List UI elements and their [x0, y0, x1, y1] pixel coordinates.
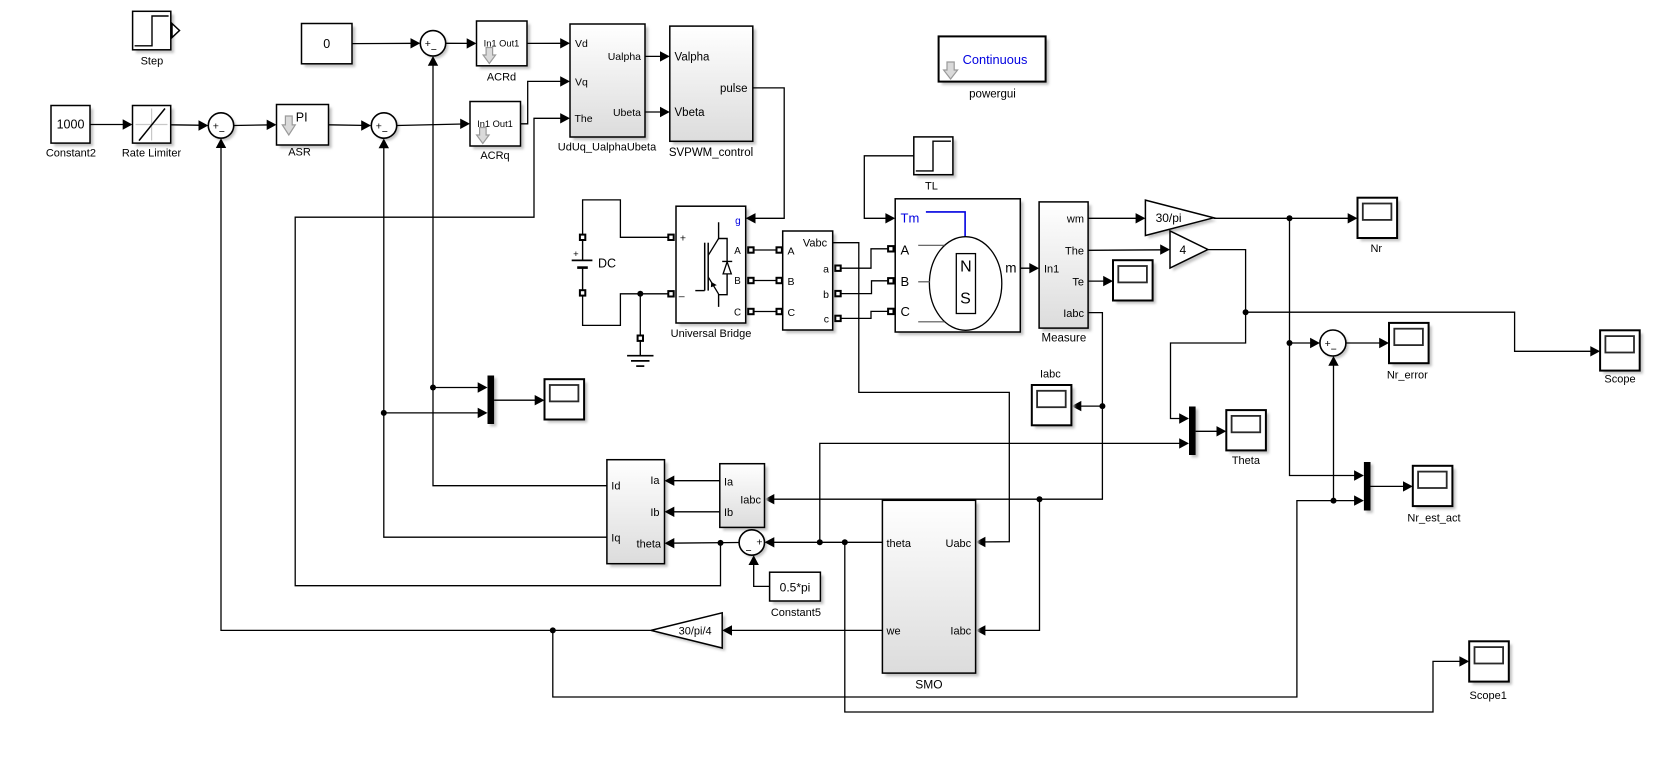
subsystem SMO sliding mode observer: [886, 504, 979, 677]
svg-text:Vd: Vd: [575, 38, 588, 50]
svg-text:wm: wm: [1066, 214, 1084, 226]
node Nr_est to sum junction: [1331, 498, 1337, 504]
sum junction theta correction: [742, 532, 767, 557]
wire bridge A to Vabc A: [748, 247, 753, 252]
svg-text:UdUq_UalphaUbeta: UdUq_UalphaUbeta: [558, 142, 657, 154]
scope Iabc: [1035, 388, 1075, 428]
wire Measure Iabc down and left to Iabc transform: [766, 313, 1102, 500]
ground symbol: [639, 294, 641, 336]
sum junction Nr_error: [1322, 333, 1348, 359]
wire sum to dq theta input: [666, 542, 739, 545]
svg-text:Rate Limiter: Rate Limiter: [122, 148, 182, 160]
svg-text:Iabc: Iabc: [1040, 368, 1061, 380]
svg-text:Tm: Tm: [901, 211, 920, 226]
svg-text:DC: DC: [598, 256, 616, 270]
wire mux to scope: [494, 399, 543, 401]
step source Step: [136, 15, 174, 54]
svg-text:Scope1: Scope1: [1470, 690, 1507, 702]
wire theta to Theta mux: [820, 443, 1188, 542]
wire Vabc a to motor A: [835, 266, 840, 271]
svg-text:PI: PI: [296, 110, 308, 124]
wire mux to scope Theta: [1196, 430, 1225, 432]
svg-text:Measure: Measure: [1042, 333, 1087, 345]
svg-text:Step: Step: [141, 56, 164, 68]
wire Nr_est up to Nr_error sum: [1333, 358, 1335, 501]
wire gain 4 branch to Scope: [1246, 312, 1599, 351]
step source TL load torque: [917, 140, 956, 178]
subsystem ACRq current regulator q: [473, 105, 524, 150]
svg-text:pulse: pulse: [720, 83, 748, 95]
wire TL to motor Tm input: [864, 156, 914, 219]
svg-text:Te: Te: [1072, 276, 1084, 288]
wire sum to ASR: [234, 124, 275, 127]
svg-text:4: 4: [1180, 243, 1187, 257]
svg-text:−: −: [746, 545, 752, 557]
wire SMO we to gain: [724, 629, 883, 631]
wire gain 30/pi to scope Nr: [1214, 217, 1356, 219]
svg-text:Vq: Vq: [575, 77, 588, 89]
subsystem SVPWM_control: [673, 29, 756, 144]
svg-text:Uabc: Uabc: [946, 538, 972, 550]
svg-text:−: −: [382, 126, 388, 138]
svg-text:A: A: [788, 246, 795, 258]
svg-text:A: A: [901, 243, 910, 258]
svg-text:+: +: [573, 249, 579, 260]
svg-text:Iabc: Iabc: [950, 625, 971, 637]
permanent magnet synchronous machine block: [898, 202, 1023, 335]
wire motor m to Measure In1: [1020, 267, 1037, 269]
node speed estimate junction: [550, 627, 556, 633]
svg-text:Nr: Nr: [1370, 243, 1382, 255]
svg-text:b: b: [823, 289, 829, 301]
svg-text:+: +: [756, 536, 762, 548]
svg-text:B: B: [788, 276, 795, 288]
wire Vabc c to motor C: [835, 316, 840, 321]
mux IdIq: [490, 378, 497, 427]
svg-text:Scope: Scope: [1604, 373, 1635, 385]
svg-text:N: N: [960, 259, 972, 276]
svg-text:Ia: Ia: [650, 475, 660, 487]
scope Scope: [1603, 334, 1643, 374]
wire Iabc block Ib to dq block: [666, 511, 720, 513]
node Id mux junction: [430, 385, 436, 391]
scope Nr: [1361, 201, 1401, 241]
wire sum to scope Nr_error: [1346, 342, 1388, 344]
svg-text:0.5*pi: 0.5*pi: [780, 580, 811, 594]
constant Constant2 value 1000: [54, 109, 93, 147]
wire Constant2 to Rate Limiter: [90, 124, 131, 126]
subsystem UdUq_UalphaUbeta park inverse transform: [573, 27, 648, 140]
svg-text:C: C: [901, 304, 910, 319]
wire ACRq to UdUq Vq input: [521, 81, 569, 123]
svg-text:c: c: [824, 314, 829, 326]
wire SVPWM pulse to bridge gate g: [747, 88, 784, 218]
motor Tm blue wire: [926, 212, 965, 237]
subsystem dq to alpha-beta transform: [610, 463, 668, 567]
svg-text:m: m: [1005, 261, 1016, 276]
scope Te: [1116, 263, 1156, 303]
svg-text:B: B: [734, 276, 741, 287]
svg-text:theta: theta: [887, 538, 912, 550]
svg-text:Ib: Ib: [724, 507, 733, 519]
wire Measure wm to gain 30/pi: [1088, 217, 1144, 219]
wire gain 4 to Theta mux: [1171, 250, 1246, 419]
svg-text:The: The: [1065, 246, 1084, 258]
wire sum to ACRq: [397, 124, 469, 126]
subsystem ASR PI controller: [280, 108, 332, 149]
svg-text:A: A: [734, 246, 741, 257]
subsystem Measure: [1042, 205, 1091, 331]
svg-text:S: S: [960, 291, 971, 308]
dc voltage source DC: [580, 235, 585, 240]
svg-text:Iq: Iq: [611, 533, 620, 545]
svg-text:ASR: ASR: [288, 146, 311, 158]
svg-text:Theta: Theta: [1232, 455, 1261, 467]
svg-text:Nr_error: Nr_error: [1387, 369, 1428, 381]
constant value 0: [305, 27, 356, 67]
svg-text:ACRq: ACRq: [480, 150, 509, 162]
svg-text:powergui: powergui: [969, 89, 1016, 101]
node Iabc SMO junction: [1037, 496, 1043, 502]
wire UdUq Ualpha to SVPWM Valpha: [645, 55, 668, 57]
svg-text:Vabc: Vabc: [803, 238, 828, 250]
svg-text:Id: Id: [611, 481, 620, 493]
motor rotor ellipse with magnet: [929, 237, 1001, 331]
wire Iabc block Ia to dq block: [666, 480, 720, 482]
three-phase VI measurement block Vabc: [786, 234, 836, 333]
svg-text:30/pi: 30/pi: [1156, 211, 1182, 225]
subsystem abc to ab transform Iabc: [723, 467, 768, 531]
svg-text:Ib: Ib: [650, 507, 659, 519]
svg-text:–: –: [679, 291, 685, 303]
scope Nr_error: [1392, 326, 1432, 366]
wire Vabc b to motor B: [835, 291, 840, 296]
wire bridge C to Vabc C: [748, 309, 753, 314]
svg-text:1000: 1000: [57, 118, 85, 132]
svg-text:theta: theta: [637, 538, 662, 550]
wire constant 0 to sum: [352, 42, 419, 44]
gain 30/pi/4 flipped: [654, 616, 725, 651]
wire SMO theta to sum: [766, 541, 882, 543]
svg-text:g: g: [735, 216, 741, 227]
wire Measure The to gain 4: [1088, 249, 1168, 252]
wire bridge B to Vabc B: [748, 278, 753, 283]
scope IdIq: [548, 382, 588, 422]
wire Constant5 to sum: [754, 557, 770, 587]
svg-text:TL: TL: [925, 181, 938, 193]
gain 30/pi: [1148, 203, 1216, 238]
node theta branch junction: [718, 540, 724, 546]
sum junction d-axis current error: [423, 33, 448, 58]
mux Theta: [1192, 409, 1199, 458]
svg-text:Iabc: Iabc: [1063, 308, 1084, 320]
node DC minus junction: [637, 291, 643, 297]
svg-text:we: we: [886, 625, 901, 637]
wire dq Iq output feedback to sum2: [384, 140, 607, 537]
wire junction to scope Iabc: [1073, 405, 1102, 407]
wire ASR to sum: [329, 124, 370, 127]
node Iabc scope junction: [1099, 403, 1105, 409]
svg-text:Nr_est_act: Nr_est_act: [1407, 512, 1460, 524]
wire Iq branch to mux: [384, 412, 486, 414]
wire Id branch to mux: [433, 387, 486, 389]
scope Scope1: [1472, 645, 1512, 685]
wire Iabc to SMO Iabc input: [977, 499, 1039, 630]
gain 4: [1173, 234, 1211, 271]
wire theta feedback to UdUq The input: [295, 118, 720, 585]
scope Nr_est_act: [1416, 469, 1456, 509]
svg-text:C: C: [788, 307, 796, 319]
wire DC minus to bridge: [583, 294, 668, 326]
node wm branch junction: [1287, 215, 1293, 221]
svg-text:a: a: [823, 264, 829, 276]
powergui block Continuous: [942, 40, 1049, 85]
svg-text:Constant5: Constant5: [771, 607, 821, 619]
svg-text:Ia: Ia: [724, 477, 734, 489]
svg-text:SVPWM_control: SVPWM_control: [669, 147, 753, 159]
svg-text:SMO: SMO: [915, 677, 942, 691]
svg-text:0: 0: [323, 37, 330, 51]
svg-text:In1: In1: [1044, 264, 1059, 276]
universal bridge inverter block: [679, 209, 749, 326]
bridge igbt diode icon: [719, 222, 733, 307]
rate limiter Rate Limiter: [136, 109, 174, 147]
wire Vabc output to SMO Uabc input: [833, 243, 1010, 542]
svg-text:Ualpha: Ualpha: [608, 51, 641, 63]
wire Measure Te to scope: [1088, 280, 1111, 282]
svg-text:30/pi/4: 30/pi/4: [679, 625, 712, 637]
svg-text:−: −: [431, 44, 437, 56]
svg-text:Continuous: Continuous: [963, 52, 1028, 67]
scope Theta: [1230, 413, 1270, 453]
constant Constant5 value 0.5*pi: [773, 575, 824, 604]
wire sum to ACRd: [446, 42, 475, 44]
wire Rate Limiter to sum: [171, 124, 207, 127]
wire UdUq Ubeta to SVPWM Vbeta: [645, 111, 668, 113]
sum junction speed error: [211, 115, 236, 140]
node gain4 scope branch junction: [1243, 309, 1249, 315]
node Iq mux junction: [381, 410, 387, 416]
wire DC plus to bridge: [583, 200, 668, 237]
svg-text:−: −: [219, 126, 225, 138]
svg-text:B: B: [901, 274, 910, 289]
svg-text:Vbeta: Vbeta: [675, 107, 706, 119]
wire speed estimate to Nr_est mux and Nr_error sum: [553, 501, 1363, 697]
svg-text:Universal Bridge: Universal Bridge: [671, 328, 752, 340]
svg-text:+: +: [680, 233, 686, 245]
node theta down junction: [842, 539, 848, 545]
svg-text:−: −: [1331, 344, 1337, 356]
svg-text:Ubeta: Ubeta: [613, 107, 641, 119]
wire theta to Scope1: [845, 542, 1468, 712]
wire ACRd to UdUq Vd input: [527, 42, 569, 44]
svg-text:Constant2: Constant2: [46, 148, 96, 160]
node theta up junction: [817, 539, 823, 545]
wire mux to scope Nr_est_act: [1371, 485, 1412, 487]
subsystem ACRd current regulator d: [480, 24, 531, 69]
wire dq Id output feedback to sum3: [433, 57, 607, 485]
mux Nr_est_act: [1366, 465, 1373, 514]
node wm to Nr_error sum junction: [1287, 340, 1293, 346]
wire wm branch down to sum and mux: [1290, 218, 1363, 475]
wire junction to Nr_error sum: [1290, 342, 1319, 344]
svg-text:The: The: [575, 113, 593, 125]
sum junction q-axis current error: [374, 115, 399, 140]
svg-text:C: C: [734, 307, 741, 318]
svg-text:ACRd: ACRd: [487, 72, 516, 84]
svg-text:Valpha: Valpha: [675, 52, 711, 64]
wire gain output speed feedback to sum1: [221, 140, 651, 631]
svg-text:Iabc: Iabc: [740, 494, 761, 506]
